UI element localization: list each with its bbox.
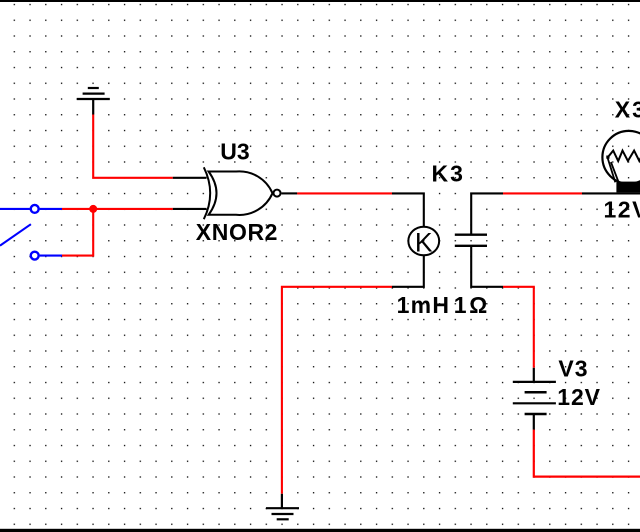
svg-text:Ω: Ω [469, 292, 487, 318]
wire: contact top to lamp X3 [503, 192, 582, 194]
svg-text:1mH: 1mH [397, 292, 451, 318]
svg-text:U3: U3 [220, 138, 249, 164]
svg-text:K: K [415, 228, 433, 258]
lamp X3 [582, 131, 640, 193]
wire: contact bottom to battery V3 [503, 287, 534, 368]
svg-text:X3: X3 [615, 96, 640, 122]
svg-text:XNOR2: XNOR2 [196, 219, 278, 245]
ground GND1 (top-left) [77, 88, 110, 115]
sheet border top [0, 0, 640, 2]
wire: U3 out to relay K3 [297, 192, 392, 194]
sheet border bottom [0, 529, 640, 532]
wire: switch to XNOR input B [62, 208, 173, 210]
relay K3 coil [392, 193, 439, 286]
wire: GND1 to XNOR input A [93, 115, 173, 178]
svg-text:1: 1 [454, 292, 467, 318]
svg-text:V3: V3 [558, 356, 588, 382]
XNOR gate U3 [173, 167, 297, 219]
switch J1 (partially off-canvas) [0, 205, 62, 260]
wire: coil bottom to GND2 [282, 287, 392, 494]
wire: node to switch lower terminal [62, 209, 93, 256]
svg-text:K3: K3 [432, 161, 465, 187]
junction node [89, 205, 97, 213]
relay K3 contact [455, 193, 503, 286]
wire: battery to right edge [534, 430, 640, 477]
svg-text:12V: 12V [557, 384, 601, 410]
ground GND2 (bottom) [266, 494, 299, 520]
battery V3 [513, 368, 556, 430]
svg-text:12V: 12V [604, 197, 640, 223]
